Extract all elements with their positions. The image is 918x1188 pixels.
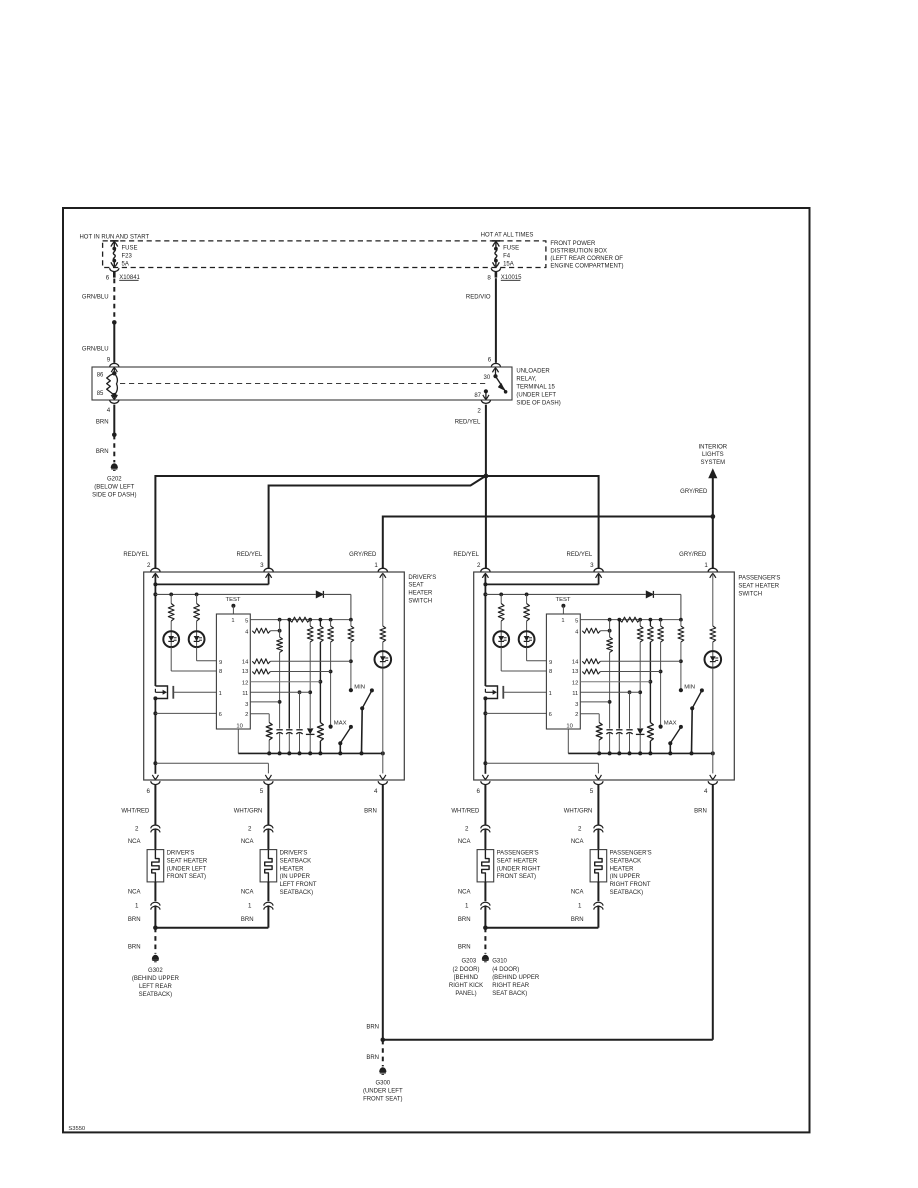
svg-text:2: 2 bbox=[578, 826, 582, 833]
svg-text:SYSTEM: SYSTEM bbox=[700, 460, 725, 466]
wire WHT/RED (driver switch pin 6 to driver's seat heater) bbox=[154, 784, 156, 824]
splice driver heaters ground bbox=[153, 925, 158, 930]
relay pin 2 connector bbox=[481, 400, 490, 403]
svg-text:NCA: NCA bbox=[458, 890, 471, 896]
wire BRN dashed to ground G300 bbox=[382, 1040, 384, 1067]
svg-text:SWITCH: SWITCH bbox=[738, 591, 762, 597]
svg-text:(4 DOOR): (4 DOOR) bbox=[492, 967, 519, 973]
relay coil terminal 86 arrow bbox=[111, 368, 117, 373]
svg-text:1: 1 bbox=[135, 902, 139, 909]
svg-text:UNLOADER: UNLOADER bbox=[516, 369, 550, 375]
svg-text:RIGHT FRONT: RIGHT FRONT bbox=[610, 882, 651, 888]
driver's seat heater switch internals bbox=[151, 568, 391, 784]
svg-text:HEATER: HEATER bbox=[280, 866, 305, 872]
fuse F23 terminal bar bbox=[110, 240, 118, 242]
wire WHT/GRN (driver switch pin 5 to seatback heater) bbox=[267, 784, 269, 824]
svg-text:G310: G310 bbox=[492, 959, 507, 965]
svg-text:(UNDER LEFT: (UNDER LEFT bbox=[516, 393, 556, 399]
svg-text:NCA: NCA bbox=[241, 890, 254, 896]
svg-text:NCA: NCA bbox=[241, 839, 254, 845]
svg-text:3: 3 bbox=[590, 562, 594, 569]
svg-text:G300: G300 bbox=[375, 1080, 390, 1086]
svg-text:INTERIOR: INTERIOR bbox=[698, 445, 727, 451]
relay internal dashed link (coil to switch) bbox=[120, 383, 489, 385]
svg-text:WHT/GRN: WHT/GRN bbox=[564, 808, 593, 814]
svg-text:FRONT POWER: FRONT POWER bbox=[550, 241, 596, 247]
svg-text:RED/VIO: RED/VIO bbox=[466, 294, 491, 300]
svg-text:RED/YEL: RED/YEL bbox=[455, 419, 481, 425]
svg-text:BRN: BRN bbox=[458, 945, 471, 951]
svg-text:PASSENGER'S: PASSENGER'S bbox=[738, 576, 780, 582]
svg-text:WHT/GRN: WHT/GRN bbox=[234, 808, 263, 814]
wire RED/YEL (relay pin 2 to splice node) bbox=[485, 405, 487, 476]
svg-text:2: 2 bbox=[465, 826, 469, 833]
svg-text:SEATBACK): SEATBACK) bbox=[610, 890, 644, 896]
svg-text:BRN: BRN bbox=[364, 808, 377, 814]
svg-text:GRN/BLU: GRN/BLU bbox=[82, 347, 109, 353]
svg-text:PANEL): PANEL) bbox=[455, 991, 476, 997]
wire BRN dashed (splice to ground G202) bbox=[113, 435, 115, 463]
svg-text:6: 6 bbox=[477, 788, 481, 795]
svg-text:PASSENGER'S: PASSENGER'S bbox=[497, 851, 539, 857]
splice on GRN/BLU wire bbox=[112, 320, 117, 325]
svg-text:6: 6 bbox=[106, 275, 110, 282]
svg-text:PASSENGER'S: PASSENGER'S bbox=[610, 851, 652, 857]
svg-text:FRONT SEAT): FRONT SEAT) bbox=[167, 874, 206, 880]
fuse F4 element bbox=[494, 247, 498, 251]
svg-text:RED/YEL: RED/YEL bbox=[123, 552, 149, 558]
wire GRY/RED (splice to passenger pin 1) bbox=[712, 517, 714, 569]
svg-text:(UNDER LEFT: (UNDER LEFT bbox=[363, 1088, 403, 1094]
svg-text:GRY/RED: GRY/RED bbox=[349, 552, 377, 558]
svg-text:5A: 5A bbox=[122, 261, 129, 267]
interior lights system arrow bbox=[709, 470, 717, 478]
svg-text:DRIVER'S: DRIVER'S bbox=[167, 851, 195, 857]
relay switch blade 30-87 bbox=[496, 376, 506, 391]
passenger's seat heater element bbox=[481, 825, 490, 828]
splice BRN bottom node bbox=[381, 1038, 386, 1043]
wire GRN/BLU dashed (fuse F23 to splice) bbox=[113, 279, 115, 322]
fuse F4 top arrow bbox=[493, 242, 500, 247]
svg-text:RED/YEL: RED/YEL bbox=[567, 552, 593, 558]
svg-text:2: 2 bbox=[477, 562, 481, 569]
svg-text:1: 1 bbox=[578, 902, 582, 909]
svg-text:(IN UPPER: (IN UPPER bbox=[610, 874, 641, 880]
svg-text:87: 87 bbox=[474, 393, 481, 399]
driver's seat heater switch box bbox=[144, 572, 405, 780]
wire GRY/RED to interior lights system bbox=[712, 478, 714, 517]
svg-text:6: 6 bbox=[488, 356, 492, 363]
front power distribution box (dashed outline) bbox=[103, 241, 546, 268]
svg-text:GRN/BLU: GRN/BLU bbox=[82, 294, 109, 300]
svg-text:SIDE OF DASH): SIDE OF DASH) bbox=[92, 492, 136, 498]
svg-text:3: 3 bbox=[260, 562, 264, 569]
svg-text:DRIVER'S: DRIVER'S bbox=[408, 575, 436, 581]
svg-text:(BELOW LEFT: (BELOW LEFT bbox=[94, 484, 134, 490]
wire BRN (driver seatback heater down) bbox=[267, 905, 269, 927]
wire RED/YEL branch B (driver pin 3) bbox=[269, 477, 485, 568]
relay coil terminal 85 arrow bbox=[113, 395, 115, 399]
fuse F23 connector socket bbox=[110, 268, 119, 271]
svg-text:(BEHIND UPPER: (BEHIND UPPER bbox=[492, 975, 540, 981]
svg-text:(UNDER LEFT: (UNDER LEFT bbox=[167, 866, 207, 872]
svg-text:NCA: NCA bbox=[128, 839, 141, 845]
svg-text:SEATBACK: SEATBACK bbox=[610, 858, 642, 864]
svg-text:15A: 15A bbox=[503, 261, 514, 267]
svg-text:BRN: BRN bbox=[241, 917, 254, 923]
svg-text:HOT AT ALL TIMES: HOT AT ALL TIMES bbox=[481, 232, 534, 238]
svg-text:HEATER: HEATER bbox=[610, 866, 635, 872]
svg-text:ENGINE COMPARTMENT): ENGINE COMPARTMENT) bbox=[550, 263, 623, 269]
svg-text:RELAY,: RELAY, bbox=[516, 377, 536, 383]
svg-text:DISTRIBUTION BOX: DISTRIBUTION BOX bbox=[550, 249, 607, 255]
relay pin 6 connector bbox=[491, 363, 500, 366]
wire BRN (passenger seatback heater down) bbox=[597, 905, 599, 927]
wire BRN (relay pin 4 to splice) bbox=[113, 405, 115, 435]
ground G302 symbol bbox=[152, 955, 158, 959]
svg-text:SEAT: SEAT bbox=[408, 583, 424, 589]
svg-text:2: 2 bbox=[248, 826, 252, 833]
svg-text:SEAT HEATER: SEAT HEATER bbox=[167, 858, 208, 864]
svg-text:30: 30 bbox=[484, 375, 491, 381]
splice on BRN wire bbox=[112, 433, 117, 438]
fuse F4 terminal bar bbox=[492, 240, 500, 242]
svg-text:(IN UPPER: (IN UPPER bbox=[280, 874, 311, 880]
splice node on RED/YEL bus bbox=[484, 474, 489, 479]
svg-text:GRY/RED: GRY/RED bbox=[679, 552, 707, 558]
passenger's seat heater switch internals bbox=[481, 568, 721, 784]
svg-text:LEFT FRONT: LEFT FRONT bbox=[280, 882, 317, 888]
wire WHT/GRN (passenger switch pin 5 to seatback heater) bbox=[597, 784, 599, 824]
svg-text:F23: F23 bbox=[122, 254, 133, 260]
svg-text:2: 2 bbox=[477, 407, 481, 414]
wire BRN (driver switch pin 4 long run) bbox=[382, 784, 384, 1039]
svg-text:NCA: NCA bbox=[571, 839, 584, 845]
relay contact 87 bbox=[484, 389, 488, 393]
svg-text:1: 1 bbox=[248, 902, 252, 909]
svg-text:RED/YEL: RED/YEL bbox=[237, 552, 263, 558]
svg-text:TERMINAL 15: TERMINAL 15 bbox=[516, 385, 555, 391]
svg-text:GRY/RED: GRY/RED bbox=[680, 489, 708, 495]
svg-text:85: 85 bbox=[97, 391, 104, 397]
wire RED/YEL bus A (driver pin 2 to passenger pin 3) bbox=[155, 476, 598, 568]
wire tie driver heaters at ground splice bbox=[155, 927, 268, 929]
svg-text:(LEFT REAR CORNER OF: (LEFT REAR CORNER OF bbox=[550, 256, 623, 262]
svg-text:G202: G202 bbox=[107, 476, 122, 482]
wire WHT/RED (passenger switch pin 6 to seat heater) bbox=[484, 784, 486, 824]
svg-text:HEATER: HEATER bbox=[408, 591, 433, 597]
svg-text:RIGHT REAR: RIGHT REAR bbox=[492, 983, 530, 989]
ground G202 symbol bbox=[111, 464, 117, 468]
svg-text:WHT/RED: WHT/RED bbox=[451, 808, 480, 814]
svg-text:S3550: S3550 bbox=[68, 1126, 85, 1132]
svg-text:86: 86 bbox=[97, 373, 104, 379]
fuse F23 top arrow bbox=[111, 242, 118, 247]
svg-text:RIGHT KICK: RIGHT KICK bbox=[449, 983, 483, 989]
svg-text:9: 9 bbox=[107, 356, 111, 363]
svg-text:SEAT BACK): SEAT BACK) bbox=[492, 991, 527, 997]
svg-text:G203: G203 bbox=[462, 959, 477, 965]
diagram border frame bbox=[63, 208, 810, 1132]
svg-text:DRIVER'S: DRIVER'S bbox=[280, 851, 308, 857]
wire RED/VIO (fuse F4 to relay pin 6) bbox=[495, 278, 497, 363]
fuse F23 element bbox=[112, 247, 116, 251]
svg-text:5: 5 bbox=[590, 788, 594, 795]
splice passenger heaters ground bbox=[483, 925, 488, 930]
fuse F4 connector socket bbox=[491, 268, 500, 271]
svg-text:4: 4 bbox=[107, 407, 111, 414]
svg-text:F4: F4 bbox=[503, 254, 511, 260]
svg-text:FUSE: FUSE bbox=[503, 246, 519, 252]
ground G203/G310 symbol bbox=[482, 955, 488, 959]
svg-text:SEATBACK): SEATBACK) bbox=[139, 992, 173, 998]
passenger's seat heater switch box bbox=[474, 572, 735, 780]
relay pin 9 connector bbox=[110, 363, 119, 366]
svg-text:SEATBACK: SEATBACK bbox=[280, 858, 312, 864]
svg-text:4: 4 bbox=[374, 788, 378, 795]
svg-text:G302: G302 bbox=[148, 968, 163, 974]
svg-text:1: 1 bbox=[374, 562, 378, 569]
wire BRN dashed to ground G302 bbox=[154, 928, 156, 954]
fuse F4 bottom arrow bbox=[495, 261, 497, 267]
ground G300 symbol bbox=[380, 1068, 386, 1072]
wire BRN dashed to ground G203/G310 bbox=[484, 928, 486, 954]
driver's seat heater element bbox=[151, 825, 160, 828]
svg-text:2: 2 bbox=[147, 562, 151, 569]
wire GRY/RED bus C (driver pin 1 to passenger pin 1) bbox=[383, 517, 713, 569]
wire BRN tie (driver to passenger pin 4) bbox=[383, 1039, 713, 1041]
svg-text:SEAT HEATER: SEAT HEATER bbox=[738, 584, 779, 590]
svg-text:BRN: BRN bbox=[571, 917, 584, 923]
svg-text:NCA: NCA bbox=[571, 890, 584, 896]
svg-text:1: 1 bbox=[704, 562, 708, 569]
svg-text:SEATBACK): SEATBACK) bbox=[280, 890, 314, 896]
passenger's seatback heater element bbox=[594, 825, 603, 828]
fuse F23 bottom arrow bbox=[113, 261, 115, 267]
svg-text:BRN: BRN bbox=[694, 808, 707, 814]
svg-text:8: 8 bbox=[487, 275, 491, 282]
svg-text:BRN: BRN bbox=[128, 945, 141, 951]
relay pin 4 connector bbox=[110, 400, 119, 403]
svg-text:RED/YEL: RED/YEL bbox=[453, 552, 479, 558]
svg-text:(BEHIND UPPER: (BEHIND UPPER bbox=[132, 976, 180, 982]
wire BRN (driver seat heater to splice) bbox=[154, 905, 156, 927]
wire GRN/BLU (splice to relay pin 9) bbox=[113, 322, 115, 362]
svg-text:(UNDER RIGHT: (UNDER RIGHT bbox=[497, 866, 541, 872]
unloader relay box bbox=[92, 367, 512, 400]
wire BRN (passenger seat heater to splice) bbox=[484, 905, 486, 927]
driver's seatback heater element bbox=[264, 825, 273, 828]
svg-text:SEAT HEATER: SEAT HEATER bbox=[497, 858, 538, 864]
svg-text:2: 2 bbox=[135, 826, 139, 833]
svg-text:BRN: BRN bbox=[366, 1055, 379, 1061]
relay coil 86-85 bbox=[112, 371, 116, 375]
svg-text:4: 4 bbox=[704, 788, 708, 795]
svg-text:6: 6 bbox=[147, 788, 151, 795]
svg-text:SWITCH: SWITCH bbox=[408, 599, 432, 605]
svg-text:LIGHTS: LIGHTS bbox=[702, 452, 724, 458]
svg-text:FRONT SEAT): FRONT SEAT) bbox=[363, 1096, 402, 1102]
svg-text:FRONT SEAT): FRONT SEAT) bbox=[497, 874, 536, 880]
svg-text:NCA: NCA bbox=[128, 890, 141, 896]
svg-text:WHT/RED: WHT/RED bbox=[121, 808, 150, 814]
svg-text:BRN: BRN bbox=[128, 917, 141, 923]
splice node GRY/RED bbox=[710, 514, 715, 519]
svg-text:HOT IN RUN AND START: HOT IN RUN AND START bbox=[79, 234, 149, 240]
svg-text:FUSE: FUSE bbox=[122, 246, 138, 252]
svg-text:LEFT REAR: LEFT REAR bbox=[139, 984, 173, 990]
relay switch contact 30 bbox=[492, 368, 498, 373]
svg-text:SIDE OF DASH): SIDE OF DASH) bbox=[516, 401, 560, 407]
wire tie passenger heaters at ground splice bbox=[485, 927, 598, 929]
svg-text:(2 DOOR): (2 DOOR) bbox=[453, 967, 480, 973]
wire BRN (passenger switch pin 4 long run) bbox=[712, 784, 714, 1039]
svg-text:BRN: BRN bbox=[96, 449, 109, 455]
svg-text:[BEHIND: [BEHIND bbox=[454, 975, 479, 981]
svg-text:BRN: BRN bbox=[96, 419, 109, 425]
wire RED/YEL (splice to passenger pin 2) bbox=[485, 476, 487, 568]
svg-text:BRN: BRN bbox=[458, 917, 471, 923]
svg-text:1: 1 bbox=[465, 902, 469, 909]
svg-text:BRN: BRN bbox=[366, 1024, 379, 1030]
svg-text:5: 5 bbox=[260, 788, 264, 795]
svg-text:NCA: NCA bbox=[458, 839, 471, 845]
